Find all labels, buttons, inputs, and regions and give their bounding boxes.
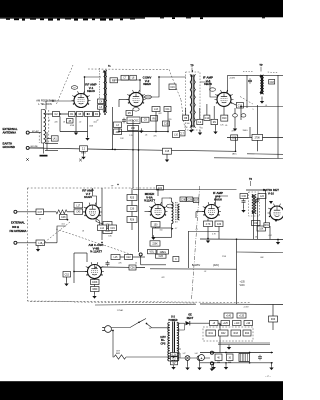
junction bbox=[249, 362, 251, 364]
wire bbox=[266, 222, 271, 224]
svg-text:5V: 5V bbox=[173, 363, 176, 365]
resistor R5 box bbox=[126, 111, 133, 116]
junction bbox=[213, 352, 215, 354]
wire V3 plate bbox=[228, 75, 283, 92]
capacitor C36 box bbox=[240, 194, 248, 199]
wire bbox=[249, 127, 251, 137]
label V2 CONV 6BE6 bbox=[143, 76, 152, 87]
junction bbox=[132, 149, 134, 151]
wire bbox=[94, 292, 96, 295]
shield dashed line top bbox=[88, 68, 169, 71]
value label 47 bbox=[39, 219, 41, 221]
ground AVC cap bbox=[165, 157, 169, 162]
value label 47K bbox=[231, 131, 235, 133]
ground V1 cathode bbox=[85, 136, 89, 141]
label value row V1 bbox=[55, 122, 97, 128]
wire bbox=[231, 103, 236, 106]
wire bbox=[256, 105, 258, 134]
wire bbox=[155, 227, 157, 230]
wire bbox=[188, 231, 190, 268]
junction bbox=[236, 238, 238, 240]
tube V8A MIXER 12AT7 bbox=[149, 202, 174, 218]
heater tap box 3 bbox=[171, 361, 178, 365]
junction bbox=[138, 149, 140, 151]
wire bbox=[131, 212, 133, 217]
svg-text:#47: #47 bbox=[183, 353, 186, 355]
test point oval V1 bbox=[71, 86, 77, 90]
dial lamp 2 bbox=[197, 356, 202, 361]
ground vol bbox=[151, 235, 155, 240]
resistor R9 box bbox=[211, 119, 218, 124]
wire bbox=[138, 188, 140, 252]
junction bbox=[73, 271, 75, 273]
ground osc bbox=[92, 294, 96, 299]
wire bbox=[44, 211, 57, 213]
label voltage callout V3 bbox=[229, 78, 236, 80]
wire breaker to transformer bbox=[126, 356, 168, 358]
svg-text:.05: .05 bbox=[145, 135, 148, 137]
volume control outline bbox=[153, 228, 172, 237]
capacitor C19 box bbox=[109, 225, 117, 231]
svg-text:C56: C56 bbox=[130, 268, 135, 270]
junction bbox=[271, 352, 273, 354]
value label 150K bbox=[89, 126, 94, 128]
junction bbox=[112, 330, 114, 332]
wire V2 to IF T2 bbox=[143, 77, 186, 97]
IF T3 shield dash b bbox=[268, 71, 279, 74]
value label .01 bbox=[48, 120, 51, 122]
label V3 IF AMP 6BA6 bbox=[203, 76, 213, 87]
svg-text:6.3V: 6.3V bbox=[172, 354, 177, 356]
wire bbox=[141, 264, 166, 266]
svg-text:C38: C38 bbox=[254, 223, 259, 225]
wire bbox=[75, 117, 77, 131]
value label 1K bbox=[82, 231, 85, 233]
svg-text:.01: .01 bbox=[195, 229, 198, 231]
wire bbox=[94, 279, 96, 280]
label V7 RF AMP 6AG5 bbox=[82, 189, 93, 200]
value label 68K bbox=[260, 257, 264, 259]
capacitor ratio det 2 bbox=[255, 198, 259, 204]
label AVC bbox=[232, 153, 237, 156]
junction bbox=[118, 131, 120, 133]
value label 47K bbox=[153, 136, 157, 138]
tuning gang linkage dashes 2 bbox=[169, 70, 181, 101]
gang linkage dashes IF3 bbox=[240, 97, 253, 105]
wire top right bus bbox=[227, 137, 283, 139]
junction bbox=[277, 239, 279, 241]
wire bbox=[74, 252, 87, 254]
resistor box 2.2 MEG on AVC bus bbox=[80, 146, 88, 155]
svg-text:6BE6: 6BE6 bbox=[143, 82, 151, 86]
wire B+ rail bbox=[200, 238, 283, 241]
wire bbox=[132, 120, 134, 188]
svg-text:C28: C28 bbox=[181, 199, 186, 201]
wire bbox=[185, 108, 187, 115]
FM tuner shield dashed box bbox=[27, 188, 250, 303]
capacitor C28 box bbox=[180, 197, 186, 202]
svg-text:+: + bbox=[201, 356, 203, 360]
wire bbox=[261, 97, 263, 100]
svg-text:[AVC]: [AVC] bbox=[213, 264, 219, 267]
svg-text:100: 100 bbox=[187, 123, 190, 125]
svg-text:.05: .05 bbox=[200, 128, 203, 130]
wire mid rail bbox=[133, 189, 237, 191]
value label 270K bbox=[222, 256, 227, 258]
coil L22 box bbox=[258, 194, 266, 199]
svg-text:.05: .05 bbox=[225, 125, 228, 127]
resistor box 68 bbox=[77, 112, 84, 117]
wire bbox=[102, 266, 146, 269]
capacitor C12 box bbox=[204, 115, 210, 120]
label B+ top bbox=[108, 66, 111, 68]
loop antenna L1 bbox=[41, 110, 45, 144]
value label 10 bbox=[135, 263, 137, 265]
heater tap box bbox=[171, 353, 178, 357]
wire bbox=[131, 188, 133, 195]
ground mixer bbox=[153, 230, 157, 235]
wire bbox=[86, 253, 88, 262]
svg-text:R27: R27 bbox=[194, 200, 199, 202]
chassis dashed line left bbox=[30, 301, 74, 303]
label B+ 105V bbox=[192, 265, 201, 267]
wire bbox=[138, 132, 140, 189]
junction bbox=[75, 113, 77, 115]
coil L14 box bbox=[98, 225, 107, 231]
resistor R42 box bbox=[219, 330, 229, 336]
svg-text:ANT-OSC: ANT-OSC bbox=[128, 119, 139, 122]
test point TP bbox=[190, 64, 194, 73]
wire bbox=[119, 131, 168, 133]
capacitor C9 box bbox=[142, 117, 150, 122]
wire bbox=[133, 256, 146, 258]
capacitor C30 box bbox=[127, 206, 137, 212]
tuning gang linkage dashes bbox=[57, 65, 74, 104]
wire bbox=[44, 113, 101, 115]
oscillator coil box bbox=[127, 117, 140, 124]
wire bbox=[74, 271, 88, 273]
wire bbox=[60, 131, 88, 133]
antenna shield dashes bbox=[48, 110, 50, 143]
capacitor C50 box bbox=[103, 229, 112, 234]
svg-text:R26: R26 bbox=[130, 220, 135, 222]
circuit breaker bbox=[114, 355, 126, 359]
ground C52 bbox=[64, 281, 68, 286]
label GE RECT bbox=[187, 314, 194, 320]
wire power top solid bbox=[95, 303, 196, 306]
svg-text:L TEL-DON: L TEL-DON bbox=[38, 102, 52, 106]
value label .01 bbox=[195, 229, 198, 231]
diode detector 2 bbox=[274, 219, 278, 222]
resistor R10 box bbox=[221, 115, 228, 121]
wire bbox=[234, 108, 236, 127]
capacitor C13 box bbox=[236, 103, 243, 109]
wire bbox=[223, 106, 225, 115]
chassis dashed line bbox=[74, 302, 195, 303]
capacitor C52 box bbox=[63, 272, 71, 278]
wire plug top bbox=[111, 323, 138, 328]
wire bbox=[235, 138, 237, 152]
tuning gang linkage dashes FM bbox=[40, 222, 70, 246]
wire bbox=[199, 360, 201, 365]
capacitor ratio det bbox=[242, 199, 246, 205]
resistor box 150 bbox=[231, 135, 238, 140]
terminal volume bbox=[139, 253, 142, 256]
junction bbox=[112, 148, 114, 150]
capacitor C33 box bbox=[215, 221, 223, 227]
label value under V2 bbox=[120, 113, 162, 140]
ground transformer bbox=[171, 365, 175, 370]
trimmer capacitor oval bbox=[233, 114, 238, 117]
wire bbox=[157, 190, 159, 197]
junction bbox=[173, 356, 175, 358]
svg-text:220: 220 bbox=[55, 122, 58, 124]
ground V7 bbox=[97, 225, 101, 230]
resistor box 10K det bbox=[257, 226, 266, 231]
label ground lead bbox=[30, 146, 38, 148]
value label 10K bbox=[184, 127, 188, 129]
volume control box bbox=[148, 250, 157, 254]
wire bbox=[166, 154, 168, 157]
wire AVC right bbox=[214, 157, 283, 160]
value label .001 bbox=[61, 224, 65, 226]
handwritten note bbox=[265, 374, 271, 378]
voltage callout +90 bbox=[244, 321, 253, 326]
svg-text:C12: C12 bbox=[205, 118, 210, 120]
svg-text:R42: R42 bbox=[221, 333, 226, 335]
svg-text:1MEG: 1MEG bbox=[242, 130, 248, 132]
wire ladder bottom rail bbox=[200, 362, 273, 364]
wire bbox=[256, 198, 258, 239]
value label 22K bbox=[118, 263, 122, 265]
capacitor output bbox=[258, 355, 262, 361]
trimmer capacitor oval 2 bbox=[241, 114, 246, 117]
wire bbox=[140, 256, 142, 265]
wire bbox=[46, 132, 48, 150]
wire bbox=[73, 253, 75, 283]
switch S2 ON-OFF bbox=[138, 319, 147, 325]
junction bbox=[54, 113, 56, 115]
capacitor C3 box bbox=[85, 112, 93, 117]
resistor box 1 MEG bbox=[157, 250, 169, 255]
tuning gang linkage dashes FM 2 bbox=[56, 229, 133, 255]
resistor box 20K bbox=[128, 126, 139, 131]
capacitor C47 box bbox=[36, 209, 44, 215]
ground under V3 bbox=[189, 128, 193, 133]
svg-text:10K: 10K bbox=[259, 229, 264, 231]
svg-text:6BA6: 6BA6 bbox=[87, 89, 95, 93]
tube V9 FM IF 6AU6 bbox=[202, 202, 221, 218]
wire V7 cathode bbox=[96, 219, 100, 226]
ground speaker bbox=[210, 366, 214, 371]
label AM FEED THRU TEL-DON bbox=[36, 99, 56, 107]
svg-text:RECT: RECT bbox=[187, 317, 194, 320]
resistor R25 box bbox=[127, 195, 137, 201]
ground V9 bbox=[206, 238, 210, 243]
junction bbox=[271, 362, 273, 364]
junction bbox=[240, 106, 242, 108]
wire bbox=[218, 227, 220, 240]
svg-text:150: 150 bbox=[160, 230, 163, 232]
wire bbox=[83, 211, 86, 213]
tube V3 IF AMP 6BA6 bbox=[215, 90, 234, 106]
label EARTH GROUND bbox=[3, 142, 15, 150]
svg-text:47: 47 bbox=[39, 219, 41, 221]
wire bbox=[17, 211, 36, 213]
wire bbox=[94, 285, 96, 287]
wire bbox=[199, 129, 201, 132]
capacitor box C bbox=[173, 257, 179, 262]
IF transformer T2 with shield bbox=[186, 72, 201, 130]
ground IF T3 bbox=[260, 99, 264, 104]
value label 12K bbox=[220, 125, 224, 127]
wire rectifier out bbox=[190, 323, 220, 352]
ground lamp 1 bbox=[185, 365, 189, 370]
resistor box 100K osc bbox=[91, 280, 100, 285]
wire bbox=[101, 231, 103, 241]
value label +135V bbox=[243, 307, 249, 309]
tube V10 RATIO DET bbox=[268, 204, 287, 220]
wire bbox=[171, 198, 173, 202]
wire bbox=[206, 104, 208, 115]
test point oval V3 bbox=[210, 88, 216, 91]
wire FM ant 2 up bbox=[57, 226, 66, 243]
wire bbox=[171, 224, 173, 229]
ground under V1 bbox=[74, 130, 78, 135]
wire bbox=[187, 360, 189, 365]
svg-text:117VAC: 117VAC bbox=[117, 309, 124, 312]
wire IF output bbox=[241, 106, 283, 108]
coil L9 box bbox=[197, 119, 203, 124]
wire V7 plate bbox=[93, 188, 97, 206]
label T6 bbox=[249, 178, 253, 186]
svg-text:6BA6: 6BA6 bbox=[204, 82, 212, 86]
svg-text:BKR: BKR bbox=[116, 353, 121, 355]
ground V3 cathode 2 bbox=[213, 129, 217, 134]
capacitor C4 box bbox=[98, 99, 104, 104]
value label 4.7K bbox=[212, 234, 216, 236]
tube type oval V2 bbox=[133, 108, 139, 112]
svg-text:C22: C22 bbox=[126, 257, 131, 259]
wire bbox=[59, 117, 61, 132]
shield dashed line stub bbox=[105, 70, 107, 75]
svg-text:C36: C36 bbox=[242, 196, 247, 198]
junction bbox=[59, 113, 61, 115]
junction bbox=[87, 113, 89, 115]
coil L13 box bbox=[152, 107, 160, 112]
ground ladder 3 bbox=[269, 365, 273, 370]
label V9 IF AMP 6AU6 bbox=[213, 191, 223, 202]
svg-text:C45: C45 bbox=[76, 212, 81, 214]
value label 5 bbox=[253, 109, 254, 111]
svg-text:.01: .01 bbox=[48, 120, 51, 122]
antenna core dashes bbox=[38, 132, 40, 143]
wire antenna to V1 grid bbox=[46, 101, 74, 110]
wire bbox=[215, 125, 217, 130]
wire bbox=[196, 211, 205, 213]
wire bbox=[131, 201, 133, 206]
svg-text:300 Ω: 300 Ω bbox=[12, 225, 19, 229]
coil L6 box bbox=[110, 78, 118, 83]
wire bbox=[173, 362, 175, 365]
svg-text:6AG5: 6AG5 bbox=[84, 195, 92, 199]
capacitor C48 box bbox=[60, 215, 68, 220]
svg-text:C29: C29 bbox=[188, 199, 193, 201]
wire bbox=[207, 219, 209, 222]
wire bbox=[17, 242, 36, 244]
wire volume rail bbox=[189, 231, 220, 233]
terminal earth ground bbox=[26, 146, 29, 149]
wire bbox=[167, 112, 169, 132]
label 117V 60 CPS bbox=[160, 336, 166, 346]
wire V1 plate bbox=[85, 77, 102, 94]
tube V2 CONV 6BE6 bbox=[127, 90, 152, 106]
capacitor C24 box bbox=[157, 186, 164, 191]
wire bbox=[104, 114, 106, 115]
svg-text:C47: C47 bbox=[38, 212, 43, 214]
tube V8 OSC 12AT7 bbox=[85, 262, 104, 278]
coil L10 box bbox=[173, 132, 180, 138]
capacitor C56 box bbox=[129, 265, 136, 270]
label lamp numbers bbox=[183, 353, 198, 355]
junction bbox=[219, 324, 221, 326]
resistor R31 box bbox=[264, 223, 270, 228]
svg-text:10: 10 bbox=[135, 263, 137, 265]
coil L15 box bbox=[111, 255, 120, 260]
wire switch to transformer bbox=[147, 324, 170, 328]
wire bbox=[45, 149, 58, 151]
resistor box 4.7K V9 bbox=[204, 221, 213, 227]
resistor box 3300 osc bbox=[91, 287, 100, 292]
svg-text:220: 220 bbox=[169, 119, 172, 121]
label ext ant lead bbox=[32, 130, 39, 133]
value label .002 bbox=[268, 235, 272, 237]
svg-text:~ 2 ~: ~ 2 ~ bbox=[265, 374, 271, 378]
IF transformer T3 bbox=[259, 75, 263, 95]
label V8A MIXER bbox=[144, 192, 156, 203]
svg-text:+135: +135 bbox=[240, 282, 246, 284]
svg-text:V.DC: V.DC bbox=[240, 285, 246, 287]
wire V2 plate bbox=[112, 80, 140, 93]
value label .01 bbox=[265, 105, 268, 107]
ground V3 screen bbox=[233, 126, 237, 131]
capacitor box on AVC bus bbox=[163, 148, 172, 154]
svg-text:4.7: 4.7 bbox=[175, 228, 178, 230]
wire bbox=[253, 213, 255, 240]
svg-text:C33: C33 bbox=[217, 224, 222, 226]
label V8B OSC bbox=[88, 243, 104, 254]
junction bbox=[235, 150, 237, 152]
heater tap box 2 bbox=[171, 357, 178, 361]
wire bbox=[67, 211, 74, 213]
svg-text:ANTENNA: ANTENNA bbox=[3, 131, 17, 135]
wire bbox=[95, 219, 97, 222]
value label 220 bbox=[169, 119, 172, 121]
svg-text:1MEG: 1MEG bbox=[159, 252, 166, 254]
svg-text:B+105V: B+105V bbox=[192, 265, 201, 267]
wire bbox=[192, 70, 194, 72]
capacitor C17 box bbox=[179, 131, 186, 136]
terminal external antenna bbox=[26, 131, 29, 134]
value label 150 bbox=[160, 230, 163, 232]
wire antenna ground stem bbox=[43, 143, 45, 154]
capacitor padder bbox=[122, 118, 126, 124]
FM IF transformer L20 bbox=[172, 202, 180, 224]
power transformer T4 bbox=[168, 322, 185, 363]
IF T3 shield dash a bbox=[243, 71, 253, 73]
junction bbox=[167, 131, 169, 133]
svg-text:C48: C48 bbox=[61, 217, 66, 219]
